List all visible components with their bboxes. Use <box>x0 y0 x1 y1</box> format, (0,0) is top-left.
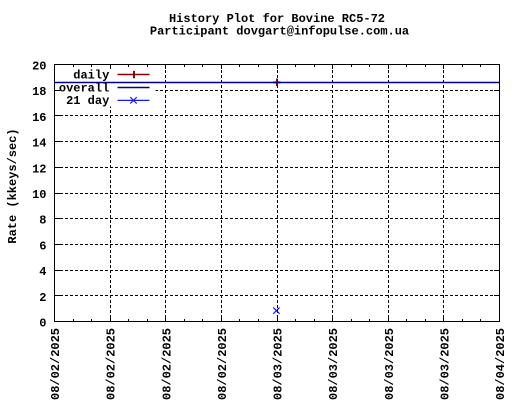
y-axis tick labels <box>32 60 46 331</box>
svg-text:08/03/2025: 08/03/2025 <box>272 328 286 400</box>
legend sample: daily red line with + <box>118 74 150 76</box>
svg-text:08/03/2025: 08/03/2025 <box>438 328 452 400</box>
svg-text:Rate (kkeys/sec): Rate (kkeys/sec) <box>6 128 20 243</box>
svg-text:20: 20 <box>32 60 46 74</box>
svg-text:Participant dovgart@infopulse.: Participant dovgart@infopulse.com.ua <box>150 25 409 39</box>
svg-text:10: 10 <box>32 188 46 202</box>
svg-text:18: 18 <box>32 85 46 99</box>
svg-text:4: 4 <box>39 265 46 279</box>
svg-text:2: 2 <box>39 291 46 305</box>
legend background blank <box>56 65 156 107</box>
svg-text:08/02/2025: 08/02/2025 <box>49 328 63 400</box>
svg-text:08/03/2025: 08/03/2025 <box>327 328 341 400</box>
svg-text:21 day: 21 day <box>66 94 109 108</box>
svg-text:12: 12 <box>32 162 46 176</box>
svg-text:08/02/2025: 08/02/2025 <box>105 328 119 400</box>
axis tick marks <box>55 65 500 322</box>
vertical dotted gridlines <box>111 65 444 321</box>
daily series red + marker at 08/03/2025 value 18.6 <box>273 79 280 87</box>
plot border frame <box>55 65 500 322</box>
x-axis date labels (rotated) <box>49 328 508 400</box>
svg-text:8: 8 <box>39 214 46 228</box>
overall average navy line at 18.6 <box>55 82 500 84</box>
legend sample: overall navy line <box>118 87 150 89</box>
svg-text:6: 6 <box>39 239 46 253</box>
svg-text:08/02/2025: 08/02/2025 <box>216 328 230 400</box>
21-day series blue x marker near 08/03/2025 value 0.85 <box>273 307 279 313</box>
svg-text:16: 16 <box>32 111 46 125</box>
legend sample: 21 day blue line with x <box>118 97 150 103</box>
svg-text:08/03/2025: 08/03/2025 <box>383 328 397 400</box>
svg-text:14: 14 <box>32 137 46 151</box>
svg-text:0: 0 <box>39 317 46 331</box>
svg-text:08/04/2025: 08/04/2025 <box>494 328 508 400</box>
horizontal dotted gridlines <box>55 91 499 296</box>
svg-text:overall: overall <box>59 81 109 95</box>
svg-text:daily: daily <box>73 68 109 82</box>
gridline dash over marker center <box>277 309 279 311</box>
svg-text:08/02/2025: 08/02/2025 <box>160 328 174 400</box>
